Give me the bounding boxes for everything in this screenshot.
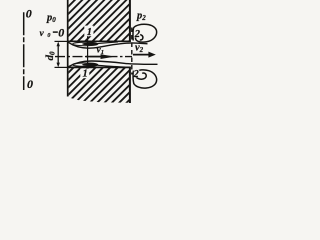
- svg-text:1: 1: [87, 27, 92, 38]
- svg-text:0: 0: [47, 33, 50, 39]
- svg-text:2: 2: [134, 29, 141, 40]
- svg-text:0: 0: [27, 77, 33, 91]
- svg-text:2: 2: [133, 69, 140, 80]
- svg-text:0: 0: [58, 25, 64, 39]
- svg-text:1: 1: [83, 69, 88, 80]
- svg-text:0: 0: [26, 6, 32, 20]
